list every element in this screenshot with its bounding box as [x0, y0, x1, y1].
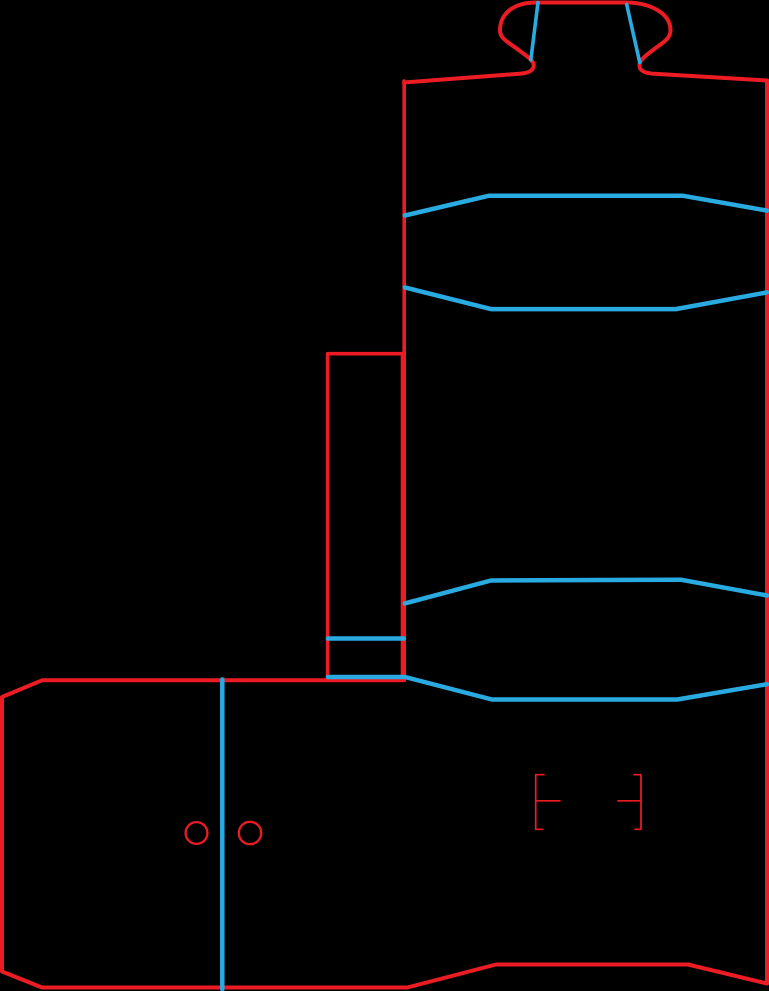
fold line upper band top — [405, 196, 767, 216]
punch hole right — [239, 822, 261, 844]
fold line in small flap — [328, 636, 404, 641]
right edge cut line — [765, 81, 769, 984]
bottom edge cut line — [2, 680, 767, 987]
tall panel left edge — [402, 81, 406, 680]
small flap rectangle — [328, 354, 403, 680]
fold line tab right — [627, 5, 640, 63]
top tab cut outline — [404, 3, 767, 83]
fold line upper band bottom — [405, 287, 767, 309]
fold line bottom panel vertical — [220, 680, 225, 990]
punch hole left — [186, 822, 208, 844]
fold line lower band top — [405, 580, 767, 604]
fold line tab left — [531, 3, 538, 61]
right registration mark — [618, 775, 641, 830]
left registration mark — [536, 775, 560, 830]
fold line lower band bottom — [328, 677, 767, 700]
